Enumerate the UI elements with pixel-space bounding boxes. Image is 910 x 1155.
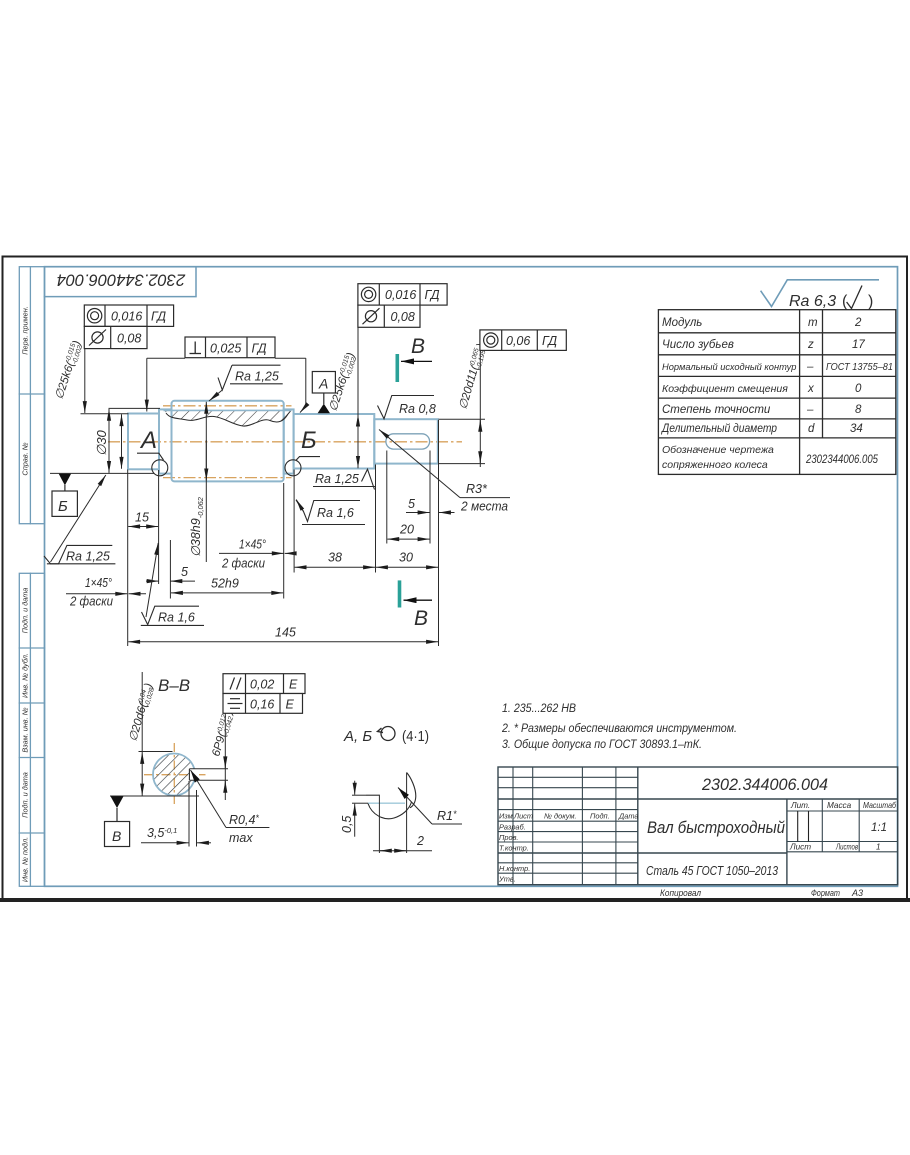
left margin column group 1 bbox=[19, 267, 44, 524]
svg-text:Инв. № подл.: Инв. № подл. bbox=[21, 837, 30, 882]
svg-text:0,016: 0,016 bbox=[111, 310, 142, 324]
dim 38 bbox=[294, 465, 375, 573]
svg-text:1. 235...262 НВ: 1. 235...262 НВ bbox=[502, 703, 576, 715]
svg-text:Ra 6,3: Ra 6,3 bbox=[789, 293, 836, 310]
svg-text:Ra 1,25: Ra 1,25 bbox=[66, 550, 110, 564]
dim 52h9 bbox=[171, 483, 284, 599]
section mark V bottom bbox=[400, 580, 433, 630]
left small grid horizontals bbox=[498, 776, 638, 778]
svg-text:2302.344006.004: 2302.344006.004 bbox=[57, 271, 186, 289]
tooth break-out wavy line bbox=[166, 410, 291, 426]
tol frame 4 (0,06) bbox=[480, 330, 566, 351]
groove arc bbox=[368, 802, 412, 819]
svg-text:ГОСТ 13755–81: ГОСТ 13755–81 bbox=[826, 362, 893, 373]
leader R3 bbox=[379, 430, 510, 514]
dim 5 collar bbox=[146, 540, 195, 599]
svg-text:5: 5 bbox=[181, 565, 188, 579]
tol frame 2 leader left bbox=[147, 357, 185, 359]
gear table row texts bbox=[660, 317, 893, 471]
svg-text:Модуль: Модуль bbox=[662, 317, 702, 329]
svg-text:Дата: Дата bbox=[618, 812, 639, 821]
dim D30 ext lines bbox=[109, 407, 161, 409]
TITLEBLOCK bbox=[498, 767, 898, 885]
gear blank bbox=[172, 401, 284, 482]
svg-text:Лист: Лист bbox=[789, 843, 811, 852]
tol frame 1 (concentricity 0,016 / runout 0,08) bbox=[84, 305, 173, 349]
svg-text:R0,4*: R0,4* bbox=[229, 813, 259, 827]
tol frame 3 leader / D25k6 dim line bbox=[357, 327, 359, 468]
svg-text:3. Общие допуска по ГОСТ 30893: 3. Общие допуска по ГОСТ 30893.1–тК. bbox=[502, 739, 702, 751]
svg-text:5: 5 bbox=[408, 497, 415, 511]
SHAFT bbox=[108, 401, 462, 482]
svg-text:Н.контр.: Н.контр. bbox=[499, 864, 530, 873]
svg-text:Изм: Изм bbox=[499, 812, 513, 821]
top-left doc number box bbox=[45, 267, 197, 297]
dim 30 bbox=[376, 420, 439, 646]
svg-text:38: 38 bbox=[328, 551, 342, 565]
pitch line bottom bbox=[163, 477, 292, 479]
svg-text:17: 17 bbox=[852, 339, 865, 351]
gear top face line over hatch bbox=[164, 409, 292, 411]
left verticals bbox=[512, 767, 514, 885]
svg-text:0,08: 0,08 bbox=[117, 332, 141, 346]
svg-text:1×45°: 1×45° bbox=[85, 576, 112, 590]
svg-text:ГД: ГД bbox=[252, 342, 267, 356]
shoulder sliver bbox=[407, 773, 416, 808]
svg-text:ГД: ГД bbox=[542, 334, 557, 348]
left margin rotated labels bbox=[21, 306, 30, 882]
svg-text:Ra 1,6: Ra 1,6 bbox=[158, 611, 195, 625]
roughness Ra1,25 gear top bbox=[209, 365, 283, 401]
svg-text:Лист: Лист bbox=[513, 812, 533, 821]
BB centerline horizontal bbox=[144, 774, 206, 776]
svg-text:сопряженного колеса: сопряженного колеса bbox=[662, 459, 768, 471]
label D25k6 right bbox=[327, 351, 359, 413]
main blue drawing frame bbox=[45, 267, 898, 887]
FRAMES bbox=[44, 280, 879, 630]
svg-text:Формат: Формат bbox=[811, 888, 840, 898]
svg-text:Масштаб: Масштаб bbox=[863, 801, 896, 810]
svg-text:Ra 0,8: Ra 0,8 bbox=[399, 402, 436, 416]
svg-text:52h9: 52h9 bbox=[211, 577, 239, 591]
svg-text:Инв. № дубл.: Инв. № дубл. bbox=[21, 653, 30, 698]
datum target circle B bbox=[285, 460, 301, 476]
roughness Ra0,8 bbox=[378, 396, 436, 419]
svg-text:Подп. и дата: Подп. и дата bbox=[21, 772, 30, 818]
dim 1x45 left journal bbox=[66, 576, 146, 609]
outer black page border bbox=[3, 257, 908, 900]
BB dim D20 bbox=[110, 672, 199, 796]
svg-text:Масса: Масса bbox=[827, 801, 852, 810]
svg-text:z: z bbox=[807, 339, 814, 351]
svg-text:2 места: 2 места bbox=[460, 500, 508, 514]
groove surface left bbox=[366, 794, 379, 796]
NOTES bbox=[501, 703, 737, 751]
svg-text:ГД: ГД bbox=[425, 288, 440, 302]
detail dim 2 bbox=[373, 834, 432, 851]
svg-text:1: 1 bbox=[876, 843, 881, 852]
gear tooth break-out hatch bbox=[164, 410, 291, 426]
svg-text:∅30: ∅30 bbox=[94, 429, 109, 456]
SECTIONBB bbox=[105, 672, 306, 847]
svg-text:Утв.: Утв. bbox=[498, 875, 516, 884]
svg-text:2302.344006.004: 2302.344006.004 bbox=[701, 775, 828, 794]
detail title A,B (4:1) bbox=[343, 727, 429, 746]
svg-text:0,5: 0,5 bbox=[340, 816, 354, 833]
svg-text:0,02: 0,02 bbox=[250, 678, 274, 692]
svg-text:Лит.: Лит. bbox=[790, 801, 810, 810]
BB keyway cutout bbox=[189, 769, 199, 781]
tol frame 2 leader right bbox=[275, 357, 306, 359]
DIMS bbox=[50, 339, 510, 646]
svg-text:В: В bbox=[112, 828, 121, 844]
svg-text:Вал быстроходный: Вал быстроходный bbox=[647, 819, 785, 837]
BB tol frame parallel bbox=[223, 674, 305, 694]
svg-text:Нормальный исходный контур: Нормальный исходный контур bbox=[662, 362, 796, 372]
datum target circle A bbox=[152, 460, 168, 476]
title block grid bbox=[498, 767, 898, 885]
dim 15 bbox=[128, 470, 159, 647]
BB keyway outline + ext lines bbox=[188, 769, 190, 781]
svg-text:–: – bbox=[806, 404, 814, 416]
svg-text:Подп. и дата: Подп. и дата bbox=[21, 588, 30, 634]
svg-text:∅20d11(: ∅20d11( bbox=[457, 363, 481, 411]
svg-text:Ra 1,6: Ra 1,6 bbox=[317, 506, 354, 520]
svg-text:15: 15 bbox=[135, 511, 149, 525]
svg-text:30: 30 bbox=[399, 551, 413, 565]
svg-text:d: d bbox=[808, 423, 815, 435]
journal B bbox=[294, 414, 375, 469]
svg-text:2: 2 bbox=[416, 834, 424, 848]
svg-text:В: В bbox=[414, 607, 428, 630]
svg-text:В: В bbox=[411, 335, 425, 358]
svg-text:ГД: ГД bbox=[151, 310, 166, 324]
BB dim 3,5 bbox=[141, 781, 211, 847]
svg-text:Обозначение чертежа: Обозначение чертежа bbox=[662, 444, 774, 456]
dim 1x45 gear chamfers bbox=[219, 538, 297, 571]
PAGE-FRAME bbox=[2, 257, 909, 901]
svg-text:0,06: 0,06 bbox=[506, 334, 530, 348]
svg-text:(: ( bbox=[842, 293, 848, 310]
label A with leader bbox=[137, 427, 164, 460]
svg-text:Е: Е bbox=[286, 698, 295, 712]
svg-text:max: max bbox=[229, 831, 253, 845]
bottom margin texts bbox=[660, 888, 863, 898]
BB tol frame symmetry bbox=[223, 694, 303, 714]
svg-text:2: 2 bbox=[854, 317, 862, 329]
DETAIL bbox=[340, 727, 462, 854]
tol frame 2 (perpendicularity 0,025) with two leaders bbox=[185, 337, 275, 358]
title block texts bbox=[498, 812, 639, 884]
svg-text:Ra 1,25: Ra 1,25 bbox=[315, 472, 359, 486]
svg-text:∅25k6(: ∅25k6( bbox=[53, 359, 77, 401]
BB shaft section circle bbox=[153, 754, 195, 796]
svg-text:0,08: 0,08 bbox=[391, 310, 415, 324]
BB leader R0,4 bbox=[191, 770, 270, 845]
svg-text:R3*: R3* bbox=[466, 482, 488, 496]
svg-text:(4·1): (4·1) bbox=[402, 728, 429, 745]
groove bottom blue line bbox=[368, 802, 405, 804]
dim D30 bbox=[94, 409, 109, 473]
right shoulder bbox=[284, 409, 294, 473]
roughness Ra1,25 journal B bbox=[313, 469, 375, 489]
svg-text:0: 0 bbox=[855, 383, 862, 395]
label B with leader bbox=[296, 427, 320, 461]
main axis centerline bbox=[108, 441, 462, 443]
svg-text:-0,028: -0,028 bbox=[144, 687, 156, 708]
svg-text:Копировал: Копировал bbox=[660, 888, 701, 898]
svg-text:А, Б: А, Б bbox=[343, 728, 372, 745]
left margin column group 2 bbox=[19, 573, 44, 886]
svg-text:А: А bbox=[318, 376, 328, 392]
tol frame 1 leader bbox=[84, 349, 86, 413]
bottom thick black edge bbox=[2, 898, 909, 902]
shaft end segment bbox=[374, 419, 438, 463]
label D25k6 left bbox=[53, 339, 85, 401]
general roughness Ra 6,3 corner bbox=[761, 280, 879, 310]
dim 20 keyway bbox=[387, 451, 430, 544]
roughness Ra1,6 right bbox=[296, 500, 365, 525]
svg-text:2. * Размеры обеспечиваются ин: 2. * Размеры обеспечиваются инструментом… bbox=[501, 723, 737, 735]
svg-text:Число зубьев: Число зубьев bbox=[662, 339, 734, 351]
svg-text:Пров.: Пров. bbox=[499, 833, 519, 842]
roughness Ra1,6 bottom left bbox=[141, 543, 204, 625]
svg-text:2302344006.005: 2302344006.005 bbox=[805, 454, 878, 466]
TABLE bbox=[658, 310, 895, 475]
svg-text:Б: Б bbox=[301, 427, 317, 454]
detail dim 0,5 bbox=[340, 781, 368, 837]
svg-text:3,5-0,1: 3,5-0,1 bbox=[147, 826, 177, 840]
svg-text:20: 20 bbox=[399, 523, 414, 537]
svg-text:145: 145 bbox=[275, 626, 296, 640]
svg-text:m: m bbox=[808, 317, 818, 329]
svg-text:Делительный диаметр: Делительный диаметр bbox=[660, 423, 777, 435]
svg-text:0,025: 0,025 bbox=[210, 342, 241, 356]
svg-text:1×45°: 1×45° bbox=[239, 538, 266, 552]
svg-text:34: 34 bbox=[850, 423, 863, 435]
svg-text:Перв. примен.: Перв. примен. bbox=[21, 306, 30, 355]
svg-text:В–В: В–В bbox=[158, 676, 190, 695]
svg-text:Взам. инв. №: Взам. инв. № bbox=[21, 707, 30, 752]
svg-text:–: – bbox=[806, 361, 814, 373]
keyway slot bbox=[386, 434, 430, 449]
leader R1 bbox=[398, 788, 462, 825]
svg-text:Ra 1,25: Ra 1,25 bbox=[235, 370, 279, 384]
datum flag B (left) bbox=[52, 474, 77, 517]
svg-text:Листов: Листов bbox=[835, 843, 858, 852]
svg-text:2 фаски: 2 фаски bbox=[69, 595, 113, 609]
svg-text:Справ. №: Справ. № bbox=[21, 442, 30, 475]
svg-text:Коэффициент смещения: Коэффициент смещения bbox=[662, 383, 788, 395]
gear parameter table grid bbox=[658, 310, 895, 475]
svg-text:1:1: 1:1 bbox=[871, 822, 887, 834]
svg-text:Сталь 45 ГОСТ 1050–2013: Сталь 45 ГОСТ 1050–2013 bbox=[646, 863, 779, 878]
section mark V top bbox=[397, 335, 432, 382]
svg-text:2 фаски: 2 фаски bbox=[221, 557, 265, 571]
right section bbox=[786, 799, 788, 885]
BB dim 6P9 bbox=[210, 708, 237, 800]
dim D38h9 bbox=[189, 402, 206, 562]
BB centerline vertical bbox=[173, 743, 175, 804]
svg-text:Степень точности: Степень точности bbox=[662, 404, 771, 416]
roughness Ra1,25 far bottom left bbox=[44, 475, 115, 564]
svg-text:∅38h9-0,062: ∅38h9-0,062 bbox=[189, 496, 205, 557]
svg-text:Б: Б bbox=[58, 498, 68, 515]
pitch line top bbox=[163, 405, 292, 407]
svg-text:Подп.: Подп. bbox=[590, 812, 610, 821]
svg-text:R1*: R1* bbox=[437, 809, 457, 823]
svg-text:Разраб.: Разраб. bbox=[499, 823, 526, 832]
dim 145 bbox=[128, 626, 438, 642]
svg-text:0,016: 0,016 bbox=[385, 288, 416, 302]
BB datum flag V bbox=[105, 796, 130, 846]
tol frame 3 (above journal B) bbox=[358, 284, 447, 328]
journal A top ext line bbox=[81, 413, 129, 415]
left shoulder bbox=[159, 409, 172, 473]
journal A bbox=[128, 414, 159, 470]
svg-text:А: А bbox=[139, 427, 157, 454]
svg-text:Т.контр.: Т.контр. bbox=[499, 844, 529, 853]
dim D25k6 line bbox=[121, 414, 123, 469]
datum flag A bbox=[312, 372, 335, 414]
dim 5 keyway end bbox=[406, 497, 455, 513]
svg-text:№ докум.: № докум. bbox=[544, 812, 577, 821]
svg-text:А3: А3 bbox=[851, 888, 863, 898]
svg-text:0,16: 0,16 bbox=[250, 698, 274, 712]
detail vertical lines bbox=[378, 795, 380, 853]
svg-text:Е: Е bbox=[289, 678, 298, 692]
svg-text:8: 8 bbox=[855, 404, 862, 416]
dim D20d11 with leader from tol frame bbox=[439, 342, 490, 467]
svg-text:): ) bbox=[868, 293, 873, 310]
